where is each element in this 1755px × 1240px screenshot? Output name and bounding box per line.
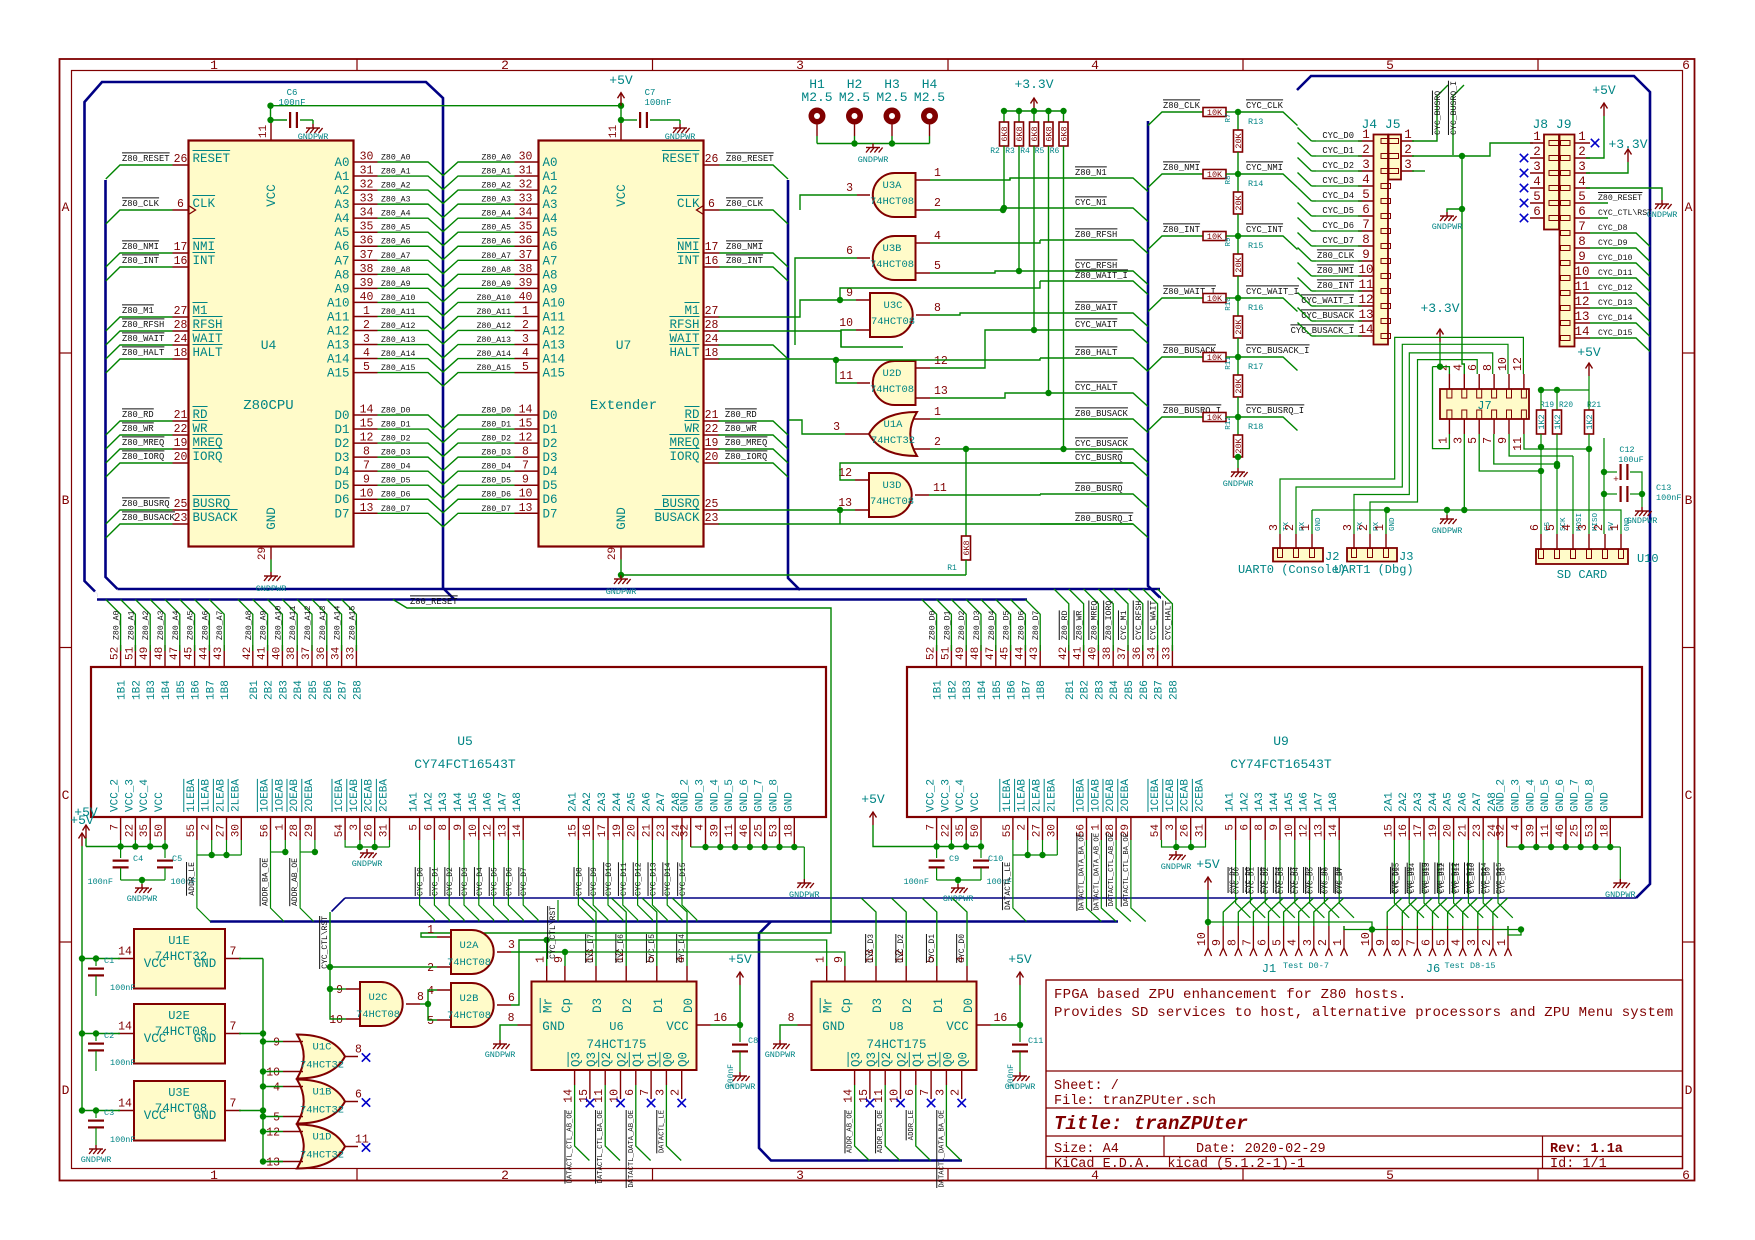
svg-text:6: 6 xyxy=(1578,205,1586,219)
svg-text:23: 23 xyxy=(656,824,668,837)
svg-text:Z80_NMI: Z80_NMI xyxy=(1163,163,1200,173)
svg-text:39: 39 xyxy=(709,824,721,837)
wire Z80_RESET long route xyxy=(393,600,831,938)
svg-text:20K: 20K xyxy=(1234,377,1244,393)
svg-text:R20: R20 xyxy=(1559,402,1573,410)
svg-text:8: 8 xyxy=(1254,824,1266,831)
svg-text:2B2: 2B2 xyxy=(264,680,276,700)
capacitor C8 xyxy=(739,1025,741,1042)
svg-text:34: 34 xyxy=(331,646,343,660)
svg-text:35: 35 xyxy=(955,824,967,837)
and-gate U2B xyxy=(451,983,494,1027)
svg-text:37: 37 xyxy=(301,647,313,660)
resistor R8 and R14 level shifter row Z80_NMI xyxy=(1148,174,1203,188)
svg-text:23: 23 xyxy=(705,512,719,525)
svg-text:MREQ: MREQ xyxy=(193,436,223,450)
wire caps to gnd U9 xyxy=(937,879,981,881)
svg-text:Z80_NMI: Z80_NMI xyxy=(1317,266,1354,276)
svg-text:C5: C5 xyxy=(172,854,182,864)
svg-text:1: 1 xyxy=(1300,524,1313,531)
svg-text:2: 2 xyxy=(934,197,941,210)
svg-text:Z80_D3: Z80_D3 xyxy=(482,449,512,458)
svg-text:5: 5 xyxy=(1386,58,1394,73)
svg-text:U10: U10 xyxy=(1637,552,1659,566)
svg-text:R4: R4 xyxy=(1020,147,1030,156)
svg-text:Z80_RD: Z80_RD xyxy=(725,410,757,420)
svg-text:RD: RD xyxy=(684,408,699,422)
svg-text:2A5: 2A5 xyxy=(627,792,639,812)
IC U5 CY74FCT16543T xyxy=(91,667,826,817)
svg-text:D2: D2 xyxy=(901,998,915,1013)
svg-text:10: 10 xyxy=(1196,932,1209,946)
svg-text:A: A xyxy=(1685,200,1693,215)
svg-text:GNDPWR: GNDPWR xyxy=(606,587,637,597)
svg-text:10K: 10K xyxy=(1207,170,1223,180)
svg-text:M2.5: M2.5 xyxy=(914,90,945,105)
svg-text:27: 27 xyxy=(1032,824,1044,837)
svg-text:3: 3 xyxy=(846,182,853,195)
svg-text:11: 11 xyxy=(933,482,947,495)
svg-text:CYC_N1: CYC_N1 xyxy=(1075,198,1107,208)
power +5V top xyxy=(618,93,625,106)
svg-text:17: 17 xyxy=(705,241,719,254)
svg-text:GND: GND xyxy=(194,957,217,971)
svg-text:R15: R15 xyxy=(1248,241,1263,251)
svg-text:GNDPWR: GNDPWR xyxy=(1432,526,1463,536)
svg-text:2: 2 xyxy=(522,319,529,332)
svg-text:A3: A3 xyxy=(543,198,558,212)
svg-text:8: 8 xyxy=(788,1012,795,1025)
svg-text:40: 40 xyxy=(360,291,374,304)
power +3.3V at J9 xyxy=(1625,149,1632,162)
svg-text:34: 34 xyxy=(1147,646,1159,660)
svg-text:1B4: 1B4 xyxy=(161,680,173,700)
svg-text:10: 10 xyxy=(609,1089,622,1103)
svg-text:13: 13 xyxy=(360,502,374,515)
wires U9 2A group CYC_D8-15 xyxy=(1394,840,1409,918)
svg-text:+5V: +5V xyxy=(70,813,94,828)
svg-text:R2: R2 xyxy=(990,147,1000,156)
svg-text:D4: D4 xyxy=(543,465,558,479)
svg-text:D7: D7 xyxy=(334,507,349,521)
svg-text:Z80_RFSH: Z80_RFSH xyxy=(122,320,164,330)
svg-text:4: 4 xyxy=(273,1082,280,1095)
power GNDPWR under J5 xyxy=(1440,212,1457,221)
svg-text:42: 42 xyxy=(242,647,254,660)
svg-text:17: 17 xyxy=(597,824,609,837)
svg-text:10: 10 xyxy=(519,488,533,501)
svg-text:2LEBA: 2LEBA xyxy=(1046,779,1058,812)
svg-text:Z80_A3: Z80_A3 xyxy=(157,610,166,640)
svg-text:55: 55 xyxy=(1002,824,1014,837)
svg-text:CYC_WAIT: CYC_WAIT xyxy=(1150,601,1159,640)
svg-text:1B5: 1B5 xyxy=(176,680,188,700)
svg-text:8: 8 xyxy=(1390,939,1403,946)
svg-text:5: 5 xyxy=(1436,939,1449,946)
svg-text:5: 5 xyxy=(363,361,370,374)
svg-text:74HCT175: 74HCT175 xyxy=(586,1038,646,1052)
svg-text:4: 4 xyxy=(522,347,529,360)
svg-text:A6: A6 xyxy=(543,240,558,254)
svg-text:Z80_A13: Z80_A13 xyxy=(477,336,511,345)
svg-text:M2.5: M2.5 xyxy=(876,90,907,105)
svg-text:Q0: Q0 xyxy=(677,1052,691,1067)
svg-text:DATACTL_CTL_AB_OE: DATACTL_CTL_AB_OE xyxy=(567,1110,575,1183)
svg-text:A11: A11 xyxy=(543,310,566,324)
svg-text:CLK: CLK xyxy=(193,197,216,211)
svg-text:Mr: Mr xyxy=(542,998,556,1013)
svg-text:R1: R1 xyxy=(947,564,957,573)
svg-text:C6: C6 xyxy=(287,88,298,98)
svg-text:Z80_D0: Z80_D0 xyxy=(482,407,512,416)
svg-text:GND: GND xyxy=(265,507,279,530)
svg-text:U8: U8 xyxy=(889,1020,903,1034)
svg-text:U1C: U1C xyxy=(313,1042,332,1054)
svg-text:1K2: 1K2 xyxy=(1537,414,1547,429)
svg-text:CYC_D12: CYC_D12 xyxy=(1439,863,1447,893)
svg-text:DATACTL_DATA_AB_OE: DATACTL_DATA_AB_OE xyxy=(628,1110,636,1188)
svg-text:48: 48 xyxy=(154,647,166,660)
svg-text:CYC_INT: CYC_INT xyxy=(1246,225,1283,235)
svg-text:GND_2: GND_2 xyxy=(1496,779,1508,812)
wires U5 2A group CYC_D8-15 xyxy=(578,840,593,922)
resistor R2 xyxy=(1003,111,1005,122)
svg-text:2: 2 xyxy=(950,1089,963,1096)
IC U4 Z80CPU xyxy=(189,141,354,547)
svg-text:6: 6 xyxy=(624,1089,637,1096)
svg-text:1A1: 1A1 xyxy=(1225,792,1237,812)
svg-text:Q2: Q2 xyxy=(600,1052,614,1067)
svg-text:A9: A9 xyxy=(543,282,558,296)
svg-text:VCC: VCC xyxy=(154,792,166,812)
svg-text:CYC_D9: CYC_D9 xyxy=(590,867,599,896)
svg-text:4: 4 xyxy=(934,230,941,243)
bus right of level shifters xyxy=(1297,76,1650,898)
svg-text:1: 1 xyxy=(934,406,941,419)
svg-text:Z80_D3: Z80_D3 xyxy=(973,610,982,640)
svg-text:3: 3 xyxy=(1268,524,1281,531)
svg-text:CYC_D2: CYC_D2 xyxy=(446,867,455,896)
svg-text:MREQ: MREQ xyxy=(669,436,699,450)
svg-text:11: 11 xyxy=(593,1089,606,1103)
power GNDPWR at C6 xyxy=(306,124,323,133)
svg-text:27: 27 xyxy=(216,824,228,837)
svg-text:A8: A8 xyxy=(334,268,349,282)
svg-text:D: D xyxy=(62,1083,70,1098)
svg-text:Z80_A14: Z80_A14 xyxy=(477,350,511,359)
svg-text:BUSRQ: BUSRQ xyxy=(193,497,231,511)
svg-text:6: 6 xyxy=(1682,58,1690,73)
svg-text:GNDPWR: GNDPWR xyxy=(127,894,158,904)
svg-text:2: 2 xyxy=(1317,939,1330,946)
IC U7 Extender xyxy=(539,141,704,547)
wires U1C inputs xyxy=(263,1041,283,1043)
svg-text:CYC_CTL\RST: CYC_CTL\RST xyxy=(1598,208,1652,218)
svg-text:A2: A2 xyxy=(543,184,558,198)
svg-text:30: 30 xyxy=(519,151,533,164)
wires U5 OEBA group xyxy=(284,840,286,852)
svg-text:6: 6 xyxy=(904,1089,917,1096)
svg-text:CYC_D5: CYC_D5 xyxy=(648,934,657,963)
svg-text:10: 10 xyxy=(329,1014,343,1027)
svg-text:Z80_A12: Z80_A12 xyxy=(304,606,313,640)
svg-text:10: 10 xyxy=(1360,932,1373,946)
svg-text:Z80_BUSRQ: Z80_BUSRQ xyxy=(122,499,170,509)
svg-text:2A2: 2A2 xyxy=(582,792,594,812)
svg-text:U6: U6 xyxy=(609,1020,623,1034)
svg-text:1: 1 xyxy=(1496,939,1509,946)
svg-text:Q2: Q2 xyxy=(880,1052,894,1067)
svg-text:5: 5 xyxy=(273,1112,280,1125)
svg-text:50: 50 xyxy=(970,824,982,837)
svg-text:D0: D0 xyxy=(962,998,976,1013)
svg-text:74HCT08: 74HCT08 xyxy=(870,196,914,208)
no-connect U1B output xyxy=(362,1098,370,1106)
svg-text:33: 33 xyxy=(360,193,374,206)
svg-text:46: 46 xyxy=(1555,824,1567,837)
svg-text:9: 9 xyxy=(522,474,529,487)
svg-text:J6: J6 xyxy=(1426,962,1440,976)
svg-text:2A2: 2A2 xyxy=(1398,792,1410,812)
svg-text:Z80_D5: Z80_D5 xyxy=(482,477,512,486)
svg-text:Z80_D5: Z80_D5 xyxy=(1003,610,1012,640)
svg-text:4: 4 xyxy=(1561,524,1574,531)
svg-text:20K: 20K xyxy=(1234,256,1244,272)
svg-text:VCC: VCC xyxy=(946,1020,969,1034)
power +3.3V for pullups xyxy=(1031,98,1038,111)
svg-text:40: 40 xyxy=(1087,647,1099,660)
svg-text:10: 10 xyxy=(1284,824,1296,837)
wire R19-R21 tops to +5V xyxy=(1541,389,1589,391)
svg-text:74HCT08: 74HCT08 xyxy=(356,1009,400,1021)
svg-text:Z80_D4: Z80_D4 xyxy=(482,463,512,472)
svg-text:31: 31 xyxy=(379,824,391,838)
power GNDPWR at C13 xyxy=(1641,494,1643,507)
svg-text:UART1 (Dbg): UART1 (Dbg) xyxy=(1334,563,1413,577)
svg-text:19: 19 xyxy=(612,824,624,837)
svg-text:Z80_A1: Z80_A1 xyxy=(381,168,411,177)
svg-text:VCC_2: VCC_2 xyxy=(110,779,122,812)
svg-text:28: 28 xyxy=(705,319,719,332)
wire R2 pulldown xyxy=(1003,146,1005,208)
capacitor C11 xyxy=(1019,1025,1021,1042)
svg-text:18: 18 xyxy=(783,824,795,837)
svg-text:CYC_CTL\RST: CYC_CTL\RST xyxy=(321,916,330,969)
svg-text:U4: U4 xyxy=(261,338,277,353)
svg-text:19: 19 xyxy=(1428,824,1440,837)
svg-text:100uF: 100uF xyxy=(1618,455,1644,465)
svg-text:ADDR_LE: ADDR_LE xyxy=(188,862,197,896)
svg-text:CYC_D9: CYC_D9 xyxy=(1598,239,1628,248)
svg-text:GND_8: GND_8 xyxy=(769,779,781,812)
svg-text:4: 4 xyxy=(1511,824,1523,831)
svg-text:GND: GND xyxy=(615,507,629,530)
wires U4-U7 data bus xyxy=(378,415,515,429)
svg-text:+5V: +5V xyxy=(1577,345,1601,360)
svg-text:37: 37 xyxy=(360,249,374,262)
svg-text:GND: GND xyxy=(194,1109,217,1123)
svg-text:2A3: 2A3 xyxy=(1413,792,1425,812)
svg-text:GNDPWR: GNDPWR xyxy=(298,132,329,142)
svg-text:R13: R13 xyxy=(1248,117,1263,127)
svg-text:1: 1 xyxy=(363,305,370,318)
svg-text:3: 3 xyxy=(1302,939,1315,946)
svg-text:A15: A15 xyxy=(543,367,566,381)
svg-text:IORQ: IORQ xyxy=(193,450,223,464)
svg-text:32: 32 xyxy=(680,824,692,837)
svg-text:DATACTL_LE: DATACTL_LE xyxy=(1004,862,1013,910)
connector U10 SD CARD xyxy=(1536,549,1628,564)
svg-text:M1: M1 xyxy=(193,304,208,318)
wires SD card CS SCK MOSI xyxy=(1540,447,1542,534)
power GNDPWR U8 pin8 xyxy=(780,1025,798,1040)
svg-text:U5: U5 xyxy=(457,734,473,749)
svg-text:VCC: VCC xyxy=(666,1020,689,1034)
wires U7 right control nets xyxy=(720,165,789,179)
capacitor C2 xyxy=(93,1030,99,1036)
svg-text:Rev: 1.1a: Rev: 1.1a xyxy=(1550,1142,1623,1157)
power GNDPWR at C7 xyxy=(673,124,690,133)
svg-text:55: 55 xyxy=(186,824,198,837)
svg-text:8: 8 xyxy=(417,991,424,1004)
svg-text:10: 10 xyxy=(266,1067,280,1080)
power unit U2E 74HCT08 xyxy=(134,1004,225,1064)
svg-text:20K: 20K xyxy=(1234,132,1244,148)
svg-text:DATACTL_CTL_BA_OE: DATACTL_CTL_BA_OE xyxy=(1123,833,1131,906)
svg-text:CYC_D7: CYC_D7 xyxy=(1322,236,1354,246)
and-gate U3A xyxy=(873,173,916,217)
svg-text:Z80_D1: Z80_D1 xyxy=(381,421,411,430)
svg-text:27: 27 xyxy=(705,305,719,318)
svg-text:Z80_A15: Z80_A15 xyxy=(381,364,415,373)
svg-text:Z80_NMI: Z80_NMI xyxy=(726,242,763,252)
wires U1B inputs xyxy=(263,1086,283,1088)
svg-text:CYC_D2: CYC_D2 xyxy=(1322,161,1354,171)
svg-text:3: 3 xyxy=(1452,437,1465,444)
svg-text:Z80_A9: Z80_A9 xyxy=(482,280,512,289)
svg-text:U1E: U1E xyxy=(168,934,190,948)
svg-text:9: 9 xyxy=(833,956,846,963)
svg-text:Z80_A10: Z80_A10 xyxy=(477,294,511,303)
svg-text:Z80_RD: Z80_RD xyxy=(1061,610,1070,640)
svg-text:2A1: 2A1 xyxy=(1383,792,1395,812)
svg-text:6: 6 xyxy=(1362,203,1370,217)
svg-text:CYC_D15: CYC_D15 xyxy=(679,862,688,896)
svg-text:1K2: 1K2 xyxy=(1553,414,1563,429)
svg-text:CYC_BUSRQ_I: CYC_BUSRQ_I xyxy=(1450,81,1459,135)
svg-text:Size: A4: Size: A4 xyxy=(1054,1142,1119,1157)
svg-text:30: 30 xyxy=(1046,824,1058,837)
svg-text:12: 12 xyxy=(483,824,495,837)
svg-text:1: 1 xyxy=(274,824,286,831)
svg-text:10K: 10K xyxy=(1207,108,1223,118)
svg-text:13: 13 xyxy=(1574,310,1589,324)
svg-text:3: 3 xyxy=(934,1089,947,1096)
svg-text:2LEBA: 2LEBA xyxy=(230,779,242,812)
svg-text:GNDPWR: GNDPWR xyxy=(1005,1082,1036,1092)
svg-text:Z80_CLK: Z80_CLK xyxy=(726,199,764,209)
svg-text:R9: R9 xyxy=(1225,237,1233,246)
svg-text:CYC_D5: CYC_D5 xyxy=(1322,206,1354,216)
bus Z80 around U4 xyxy=(85,82,455,600)
svg-text:3: 3 xyxy=(1404,158,1412,172)
svg-text:CYC_D3: CYC_D3 xyxy=(1290,867,1298,893)
svg-text:38: 38 xyxy=(1102,647,1114,660)
svg-text:Z80_A10: Z80_A10 xyxy=(274,606,283,640)
svg-text:36: 36 xyxy=(1132,647,1144,660)
svg-text:100nF: 100nF xyxy=(110,1058,136,1068)
svg-text:A7: A7 xyxy=(334,254,349,268)
svg-text:74HCT08: 74HCT08 xyxy=(447,1010,491,1022)
svg-text:SD CARD: SD CARD xyxy=(1557,568,1607,582)
svg-text:GNDPWR: GNDPWR xyxy=(665,132,696,142)
svg-text:1B1: 1B1 xyxy=(117,680,129,700)
svg-text:100nF: 100nF xyxy=(1656,493,1682,503)
wire R3 pulldown xyxy=(1018,146,1020,271)
svg-text:6: 6 xyxy=(1467,364,1480,371)
svg-text:2B4: 2B4 xyxy=(1109,680,1121,700)
svg-text:14: 14 xyxy=(1328,824,1340,838)
svg-text:INT: INT xyxy=(193,254,216,268)
svg-text:DATACTL_DATA_BA_OE: DATACTL_DATA_BA_OE xyxy=(1079,833,1087,911)
svg-text:10K: 10K xyxy=(1207,232,1223,242)
wire U5 VCC rail xyxy=(86,846,165,848)
svg-text:Z80_A8: Z80_A8 xyxy=(381,266,411,275)
capacitor C10 xyxy=(980,847,982,859)
svg-text:10: 10 xyxy=(1574,265,1589,279)
svg-text:10K: 10K xyxy=(1207,294,1223,304)
wires U9 GND group xyxy=(1507,846,1621,848)
svg-text:2LEAB: 2LEAB xyxy=(1032,779,1044,812)
svg-text:2A7: 2A7 xyxy=(1472,792,1484,812)
svg-text:RESET: RESET xyxy=(193,152,231,166)
svg-text:26: 26 xyxy=(705,153,719,166)
svg-text:D6: D6 xyxy=(543,493,558,507)
svg-text:CYC_D6: CYC_D6 xyxy=(1322,221,1354,231)
resistor R9 and R15 level shifter row Z80_INT xyxy=(1148,236,1203,250)
svg-text:DATACTL_LE: DATACTL_LE xyxy=(658,1110,666,1153)
svg-text:CYC_D2: CYC_D2 xyxy=(897,934,906,963)
svg-text:34: 34 xyxy=(360,207,374,220)
wires U6 D inputs CYC_D7-D4 xyxy=(581,898,596,966)
svg-text:Z80CPU: Z80CPU xyxy=(243,398,293,414)
svg-text:2A3: 2A3 xyxy=(597,792,609,812)
svg-text:BUSACK: BUSACK xyxy=(193,511,239,525)
svg-text:2A4: 2A4 xyxy=(612,792,624,812)
svg-text:4: 4 xyxy=(1362,173,1370,187)
svg-text:3: 3 xyxy=(1342,524,1355,531)
svg-text:1A3: 1A3 xyxy=(1254,792,1266,812)
svg-text:2: 2 xyxy=(934,436,941,449)
svg-text:1OEAB: 1OEAB xyxy=(1090,779,1102,812)
svg-text:7: 7 xyxy=(1578,220,1586,234)
power GNDPWR level shifters xyxy=(1231,468,1248,477)
svg-text:Z80_D1: Z80_D1 xyxy=(943,610,952,640)
svg-text:CYC_D4: CYC_D4 xyxy=(476,867,485,896)
svg-text:Provides SD services to host,: Provides SD services to host, alternativ… xyxy=(1054,1005,1673,1021)
IC U8 74HCT175 xyxy=(812,982,977,1071)
svg-text:WAIT: WAIT xyxy=(193,332,224,346)
svg-text:Q0: Q0 xyxy=(957,1052,971,1067)
svg-text:7: 7 xyxy=(1362,218,1370,232)
svg-text:1A5: 1A5 xyxy=(1284,792,1296,812)
svg-text:RD: RD xyxy=(193,408,208,422)
svg-text:CYC_D8: CYC_D8 xyxy=(575,867,584,896)
svg-text:Z80_WR: Z80_WR xyxy=(1076,610,1085,640)
resistor R5 xyxy=(1048,111,1050,122)
power +5V U5 xyxy=(83,825,90,838)
svg-text:Z80_RESET: Z80_RESET xyxy=(410,597,458,607)
